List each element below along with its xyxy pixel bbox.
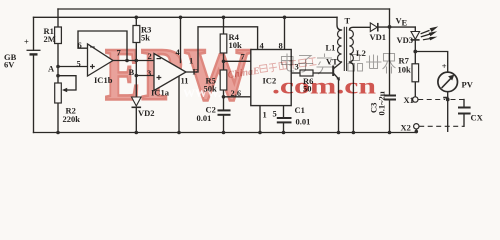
- wire IC2 pin3 to R6: [291, 72, 300, 74]
- junction R5 C2 pins 2,6: [222, 95, 226, 99]
- wire CX top stub: [463, 100, 465, 107]
- wire R3 bottom through node B to VD2: [135, 42, 137, 98]
- svg-text:C1: C1: [295, 105, 305, 115]
- svg-text:10k: 10k: [398, 65, 412, 75]
- junction R3 supply rail: [135, 15, 139, 19]
- svg-text:6V: 6V: [4, 60, 15, 70]
- battery GB plates: [27, 50, 41, 54]
- resistor R7: [412, 64, 419, 82]
- resistor R4: [220, 34, 227, 53]
- label PV minus: [443, 97, 448, 99]
- op-amp U IC1a triangle: [154, 54, 186, 91]
- junction PV minus X1 line: [446, 98, 450, 102]
- wire C1 bottom to ground: [283, 123, 285, 132]
- node VE junction: [388, 25, 392, 29]
- svg-text:L1: L1: [326, 43, 336, 53]
- op-amp IC1b plus sign: [90, 64, 95, 69]
- svg-text:0.1~2μ: 0.1~2μ: [377, 91, 387, 115]
- svg-text:+: +: [442, 61, 447, 71]
- svg-text:+: +: [24, 37, 29, 47]
- svg-text:IC1a: IC1a: [151, 88, 170, 98]
- wire R1 top lead from VE rail: [57, 9, 59, 27]
- diode VD2: [132, 97, 142, 107]
- svg-text:10k: 10k: [229, 40, 243, 50]
- junction X2 ground rail: [415, 130, 419, 134]
- junction VT emitter ground: [337, 131, 341, 135]
- svg-text:50k: 50k: [204, 84, 218, 94]
- wire R5 bottom to C2: [223, 90, 225, 110]
- wire pin7 node to IC2: [224, 60, 251, 62]
- wire VD2 cathode to ground: [135, 108, 137, 132]
- wire node A to IC1b pin5: [58, 66, 88, 68]
- watermark EPW logo big red: [105, 34, 252, 117]
- wire R4 top to +6V rail: [223, 17, 225, 34]
- junction C3 ground: [388, 131, 392, 135]
- svg-text:2: 2: [148, 51, 152, 61]
- wire L2 bottom lead to ground: [349, 62, 353, 133]
- junction R2 ground: [56, 131, 60, 135]
- wire IC2 pin8 to +6V rail: [284, 17, 286, 49]
- op-amp U IC1b triangle: [88, 44, 114, 76]
- wire R2 bottom to ground: [57, 103, 59, 133]
- svg-text:0.01: 0.01: [197, 113, 212, 123]
- node A junction: [56, 65, 60, 69]
- wire PV minus down: [447, 92, 449, 131]
- resistor R3: [133, 26, 140, 43]
- wire R3 top lead: [135, 17, 137, 26]
- transformer T core: [344, 27, 346, 71]
- svg-text:5: 5: [77, 58, 81, 68]
- capacitor C3: [384, 96, 396, 100]
- svg-text:T: T: [345, 16, 351, 26]
- wire VT collector to L1: [334, 62, 342, 68]
- junction L2 ground: [352, 131, 356, 135]
- watermark gray chinese characters hand-drawn: [282, 54, 396, 75]
- resistor R1: [55, 27, 62, 44]
- op-amp IC1a plus sign: [157, 75, 162, 80]
- inductor L2 secondary winding: [349, 30, 353, 62]
- wire R7 bottom to X1: [414, 82, 416, 97]
- junction R3 output wire: [135, 59, 139, 63]
- IC2 timer box: [251, 50, 291, 106]
- wire C3 bottom to ground: [389, 100, 391, 132]
- wire IC1a output F loop to IC2 pin4: [186, 27, 258, 72]
- svg-text:L2: L2: [356, 48, 366, 58]
- wire IC1b feedback pin6 loop: [78, 31, 127, 61]
- wire battery plus lead: [33, 17, 35, 50]
- wire IC1a pin4 to +6V rail: [180, 17, 182, 62]
- junction C1 ground: [282, 131, 286, 135]
- wire IC1a pin11 to ground: [178, 76, 180, 133]
- capacitor CX: [458, 108, 471, 114]
- wire X1 dashed to CX: [451, 99, 465, 101]
- wire R2 wiper loop: [58, 76, 76, 90]
- wire R1 bottom to node A and R2: [57, 42, 59, 84]
- wire CX bottom stub: [463, 114, 465, 126]
- watermark ChinaE small red text: [227, 58, 317, 81]
- LED VD3 emission arrows: [421, 26, 439, 40]
- svg-text:CX: CX: [471, 113, 484, 123]
- wire X1 dashed test lead: [418, 99, 445, 101]
- svg-text:X1: X1: [404, 95, 414, 105]
- wire VE column to C3: [389, 9, 391, 95]
- wire L1 top lead to +6V rail: [337, 17, 342, 30]
- meter PV: [438, 72, 458, 92]
- svg-text:220k: 220k: [63, 114, 81, 124]
- junction pin4 supply rail: [179, 15, 183, 19]
- svg-text:VD1: VD1: [370, 32, 387, 42]
- capacitor C2: [218, 110, 231, 114]
- wire battery minus lead: [33, 54, 35, 132]
- LED VD3: [411, 32, 420, 40]
- capacitor C1: [277, 118, 292, 122]
- junction pin11 ground: [177, 131, 181, 135]
- transistor VT: [332, 66, 340, 81]
- svg-text:3: 3: [147, 68, 151, 78]
- terminal X1: [413, 97, 418, 102]
- svg-text:E: E: [402, 18, 408, 28]
- svg-text:5k: 5k: [141, 33, 150, 43]
- wire R4 bottom to R5 top: [223, 53, 225, 70]
- svg-text:VD3: VD3: [397, 35, 414, 45]
- wire VT emitter to ground: [334, 74, 339, 133]
- svg-text:5: 5: [273, 109, 277, 119]
- svg-text:X2: X2: [401, 123, 411, 133]
- svg-text:2M: 2M: [44, 34, 56, 44]
- svg-text:.com.cn: .com.cn: [272, 74, 376, 99]
- svg-text:1: 1: [189, 56, 193, 66]
- resistor R6 horizontal: [300, 70, 313, 76]
- wire VD3 cathode to R7 node: [414, 41, 416, 64]
- svg-text:F: F: [193, 67, 198, 77]
- wire node B to IC1a pin3: [136, 75, 154, 77]
- junction R4 R5 pin7: [222, 60, 226, 64]
- svg-text:VD2: VD2: [138, 108, 155, 118]
- diode VD1: [370, 23, 378, 32]
- wire node to PV plus: [415, 52, 447, 72]
- svg-text:IC1b: IC1b: [94, 75, 113, 85]
- junction VD3 R7 PV: [413, 50, 417, 54]
- wire VE top rail: [58, 8, 390, 10]
- inductor L1 primary winding: [338, 30, 342, 62]
- wire IC2 pin1 to ground: [259, 106, 261, 133]
- op-amp IC1a minus sign: [157, 58, 162, 60]
- junction A to R2 wiper: [56, 74, 60, 78]
- wire VD3 anode stub: [414, 27, 416, 31]
- node B junction: [135, 74, 139, 78]
- svg-text:1: 1: [263, 110, 267, 120]
- potentiometer R2: [55, 83, 76, 103]
- svg-text:A: A: [48, 64, 55, 74]
- junction IC1b feedback output: [125, 59, 129, 63]
- wire ground bottom rail: [34, 132, 417, 134]
- wire C2 bottom to ground: [223, 116, 225, 133]
- junction pin8 supply rail: [283, 15, 287, 19]
- wire IC1b output to IC1a pin2: [113, 60, 154, 62]
- wire X2 dashed test lead: [419, 125, 464, 127]
- wire node to IC2 pins 2,6: [224, 96, 251, 98]
- svg-text:PV: PV: [462, 80, 474, 90]
- junction pin1 ground: [258, 131, 262, 135]
- svg-text:6: 6: [78, 40, 82, 50]
- wire VD1 cathode to VE node: [379, 26, 415, 28]
- svg-text:0.01: 0.01: [296, 117, 311, 127]
- svg-text:B: B: [129, 67, 135, 77]
- junction C2 ground: [222, 131, 226, 135]
- svg-text:11: 11: [181, 76, 189, 86]
- wire +6V rail: [34, 16, 338, 18]
- wire R6 to VT base: [313, 72, 333, 74]
- junction VD2 ground: [135, 131, 139, 135]
- wire L2 top lead to VD1: [349, 27, 370, 30]
- junction R4 supply rail: [222, 15, 226, 19]
- svg-text:8: 8: [279, 41, 283, 51]
- svg-text:2,6: 2,6: [231, 88, 242, 98]
- resistor R5: [220, 70, 227, 90]
- wire IC2 pin5 to C1: [283, 106, 285, 118]
- wire X2 stub to ground rail: [415, 129, 417, 133]
- terminal X2: [414, 124, 419, 129]
- op-amp IC1b minus sign: [90, 46, 95, 48]
